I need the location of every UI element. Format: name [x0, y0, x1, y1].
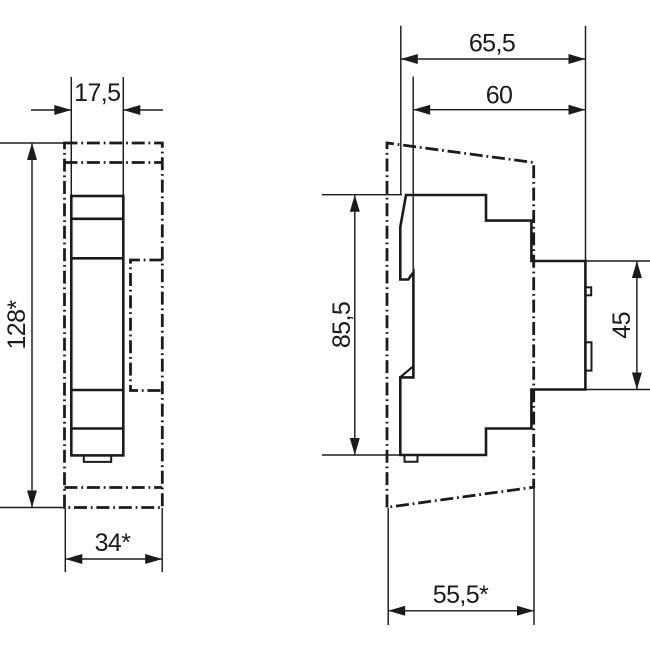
side view cover outline (dash-dot trapezoid)	[387, 143, 534, 508]
side view device profile	[400, 195, 585, 455]
svg-text:45: 45	[608, 312, 636, 339]
dimension 17,5 dimension line	[31, 109, 163, 111]
dimension 17,5 extension lines	[71, 77, 123, 196]
svg-text:55,5*: 55,5*	[433, 581, 489, 609]
svg-text:65,5: 65,5	[469, 30, 515, 58]
front view foot tab	[84, 455, 111, 462]
dimension 45 extension lines	[585, 261, 650, 390]
svg-text:34*: 34*	[95, 529, 132, 557]
front view device body	[71, 196, 123, 455]
svg-text:85,5: 85,5	[328, 302, 356, 348]
dimension 55,5* arrows	[388, 606, 534, 616]
dimension 60 extension line	[412, 77, 414, 273]
dimension 128* arrows	[27, 143, 37, 508]
dimension 65,5 arrows	[401, 54, 586, 64]
dimension 85,5 extension lines	[322, 195, 402, 455]
dimension 60 arrows	[413, 105, 585, 115]
dimension 60 dimension line	[413, 109, 585, 111]
dimension 128* extension lines	[0, 143, 68, 508]
dimension 55,5* extension lines	[388, 487, 534, 625]
dimension 128* dimension line	[31, 143, 33, 508]
svg-text:60: 60	[486, 82, 513, 110]
side view DIN-rail slider	[585, 342, 591, 370]
svg-text:17,5: 17,5	[74, 79, 120, 107]
svg-text:128*: 128*	[3, 300, 31, 350]
dimension 45 dimension line	[636, 261, 638, 390]
dimension 85,5 dimension line	[354, 195, 356, 455]
dimension 65,5 extension lines	[401, 26, 586, 261]
dimension 34* extension lines	[65, 508, 162, 572]
front view cover outline (dash-dot rectangle)	[65, 143, 163, 508]
dimension 45 arrows	[632, 261, 642, 390]
side view lower notch wedge	[400, 366, 413, 377]
dimension 85,5 arrows	[350, 195, 360, 455]
dimension 55,5* dimension line	[388, 610, 534, 612]
side view DIN-rail clip bump	[585, 287, 591, 295]
dimension 17,5 arrows	[54, 105, 140, 115]
dimension 65,5 dimension line	[401, 58, 586, 60]
side view foot tab	[405, 455, 418, 462]
dimension 34* arrows	[65, 554, 162, 564]
dimension 34* dimension line	[65, 558, 162, 560]
